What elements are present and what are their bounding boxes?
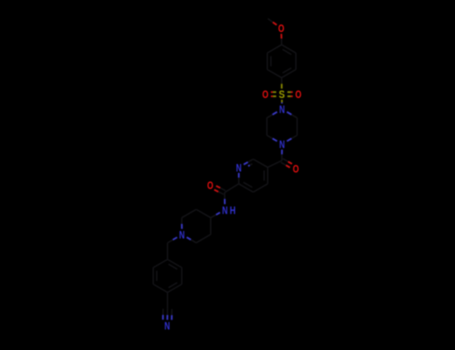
pyridine edge C3-C4	[253, 184, 268, 192]
svg-text:O: O	[207, 180, 213, 192]
pyridine edge C4=C5	[267, 167, 269, 184]
svg-text:O: O	[295, 89, 301, 101]
bond C4-S	[281, 78, 283, 84]
bond S-N piperazine	[281, 100, 283, 103]
piperazine edge N1-C2	[287, 112, 292, 115]
bond piperidine N-benzyl CH2	[173, 237, 177, 240]
triple bond C#N nitrile	[166, 309, 168, 315]
svg-text:N: N	[222, 205, 228, 217]
svg-text:S: S	[279, 89, 285, 101]
pyridine edge C6=N1	[248, 159, 253, 162]
double bond S=O right	[287, 95, 291, 97]
bond N-C carbonyl	[281, 150, 283, 155]
pyridine edge C2=C3	[239, 184, 253, 192]
bond amide C-N	[224, 193, 226, 199]
svg-text:N: N	[179, 230, 185, 242]
double bond S=O left	[273, 91, 277, 93]
piperazine edge C2-C3	[296, 118, 298, 136]
benzene ring edge C4-C5	[267, 70, 281, 78]
bond carbonyl-pyridine C5	[268, 161, 282, 168]
cyanophenyl edge C3-C4	[168, 284, 182, 292]
cyanophenyl edge C2-C3	[181, 268, 183, 285]
piperazine edge C3-N4	[292, 135, 298, 138]
piperidine edge C4-C3	[196, 209, 211, 217]
benzene ring edge C5-C6	[266, 53, 268, 70]
piperazine edge N4-C5	[273, 139, 278, 142]
svg-text:N: N	[279, 104, 285, 116]
double bond C=O ketone	[281, 162, 286, 165]
benzene ring edge C1-C2	[282, 45, 296, 53]
bond phenyl C4-nitrile C	[167, 292, 169, 309]
svg-text:O: O	[293, 164, 299, 176]
svg-text:N: N	[236, 162, 242, 174]
pyridine edge C5-C6	[253, 159, 268, 167]
svg-text:N: N	[279, 139, 285, 151]
svg-text:O: O	[262, 89, 268, 101]
double bond amide C=O	[220, 188, 225, 191]
svg-text:H: H	[230, 205, 236, 217]
cyanophenyl edge C4-C5	[153, 284, 167, 292]
piperidine edge C2-N1	[181, 218, 183, 224]
svg-text:N: N	[164, 320, 170, 332]
cyanophenyl edge C6-C1	[153, 259, 167, 267]
bond amide N-piperidine C4	[216, 213, 220, 215]
piperazine edge C5-C6	[266, 118, 268, 136]
piperazine edge C6-N1	[267, 115, 273, 118]
benzene ring edge C2-C3	[295, 53, 297, 70]
piperidine edge C5-C4	[210, 218, 212, 235]
piperidine edge C3-C2	[182, 209, 196, 217]
benzene ring edge C3-C4	[282, 70, 296, 78]
cyanophenyl edge C1-C2	[168, 259, 182, 267]
bond O-C1 (methoxy to ring)	[280, 34, 282, 39]
benzene ring edge C6-C1	[267, 45, 281, 53]
svg-text:O: O	[278, 23, 284, 35]
piperidine edge C6-C5	[196, 234, 211, 242]
cyanophenyl edge C5-C6	[152, 268, 154, 285]
piperidine edge N1-C6	[187, 237, 191, 239]
bond CH2-phenyl C1	[167, 243, 169, 260]
pyridine edge N1-C2	[238, 173, 240, 178]
bond CH3-O (methoxy methyl)	[268, 19, 273, 23]
bond pyridine C2-amide C	[225, 184, 239, 193]
